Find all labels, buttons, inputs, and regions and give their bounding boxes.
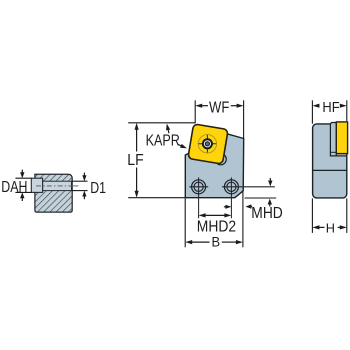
insert side (yellow) bbox=[336, 122, 347, 154]
right mounting hole crosshair + MHD extension bbox=[222, 186, 275, 188]
centerline bbox=[36, 185, 79, 187]
svg-text:MHD: MHD bbox=[251, 205, 282, 222]
side body bbox=[313, 124, 347, 198]
DAH arrow up bbox=[20, 192, 24, 198]
MHD arrow down bbox=[268, 181, 272, 187]
B dimension line bbox=[185, 240, 192, 244]
svg-text:D1: D1 bbox=[90, 180, 106, 197]
D1 arrow down bbox=[82, 175, 86, 181]
LF bottom extension line bbox=[128, 197, 185, 199]
seam line bbox=[313, 169, 347, 171]
KAPR leader arrow up bbox=[166, 124, 170, 131]
svg-text:H: H bbox=[326, 220, 335, 235]
screw head dark ring bbox=[202, 138, 213, 149]
LF dimension line bbox=[135, 123, 139, 130]
boss (protruding hub) bbox=[31, 178, 42, 192]
screw outer circle bbox=[198, 135, 216, 153]
svg-text:B: B bbox=[212, 235, 221, 250]
left mounting hole crosshair bbox=[189, 186, 208, 188]
svg-text:KAPR: KAPR bbox=[146, 133, 180, 150]
insert (yellow) bbox=[188, 124, 228, 164]
MHD horizontal arrow left bbox=[245, 204, 251, 208]
KAPR leader arrow to insert edge bbox=[178, 144, 182, 146]
HF dimension line bbox=[312, 104, 319, 108]
dimension D1 extension lines bbox=[72, 180, 88, 182]
left mounting hole bbox=[192, 180, 206, 194]
LF top reference line bbox=[128, 122, 195, 124]
MHD arrow up bbox=[268, 199, 272, 205]
pocket pin circle behind insert bbox=[215, 154, 226, 165]
svg-text:MHD2: MHD2 bbox=[197, 219, 236, 236]
seat notch line bbox=[330, 151, 336, 153]
svg-text:WF: WF bbox=[209, 99, 229, 116]
H extension lines bbox=[311, 198, 313, 233]
DAH arrow down bbox=[20, 172, 24, 178]
hatched block body bbox=[35, 174, 72, 212]
D1 arrow up bbox=[82, 191, 86, 197]
dimension DAH extension lines bbox=[15, 177, 31, 179]
HF extension lines bbox=[311, 100, 313, 123]
MHD horizontal arrow right bbox=[225, 205, 231, 209]
insert seat strip bbox=[330, 123, 336, 156]
MHD2 dimension line bbox=[199, 213, 206, 217]
svg-text:LF: LF bbox=[127, 152, 143, 169]
MHD bottom-edge extension line bbox=[245, 197, 277, 199]
seat bottom line under insert bbox=[336, 155, 347, 157]
tool body bbox=[185, 134, 243, 198]
screw torx center bbox=[205, 142, 209, 146]
right mounting hole bbox=[224, 180, 238, 194]
dimension WF extension lines bbox=[194, 100, 196, 123]
svg-text:HF: HF bbox=[322, 100, 339, 116]
WF dimension line bbox=[195, 104, 202, 108]
screw crosshair bbox=[198, 143, 217, 145]
H dimension line bbox=[312, 225, 319, 229]
svg-text:DAH: DAH bbox=[1, 179, 27, 196]
B extension lines bbox=[184, 198, 186, 247]
bore (hole section) bbox=[43, 181, 72, 190]
